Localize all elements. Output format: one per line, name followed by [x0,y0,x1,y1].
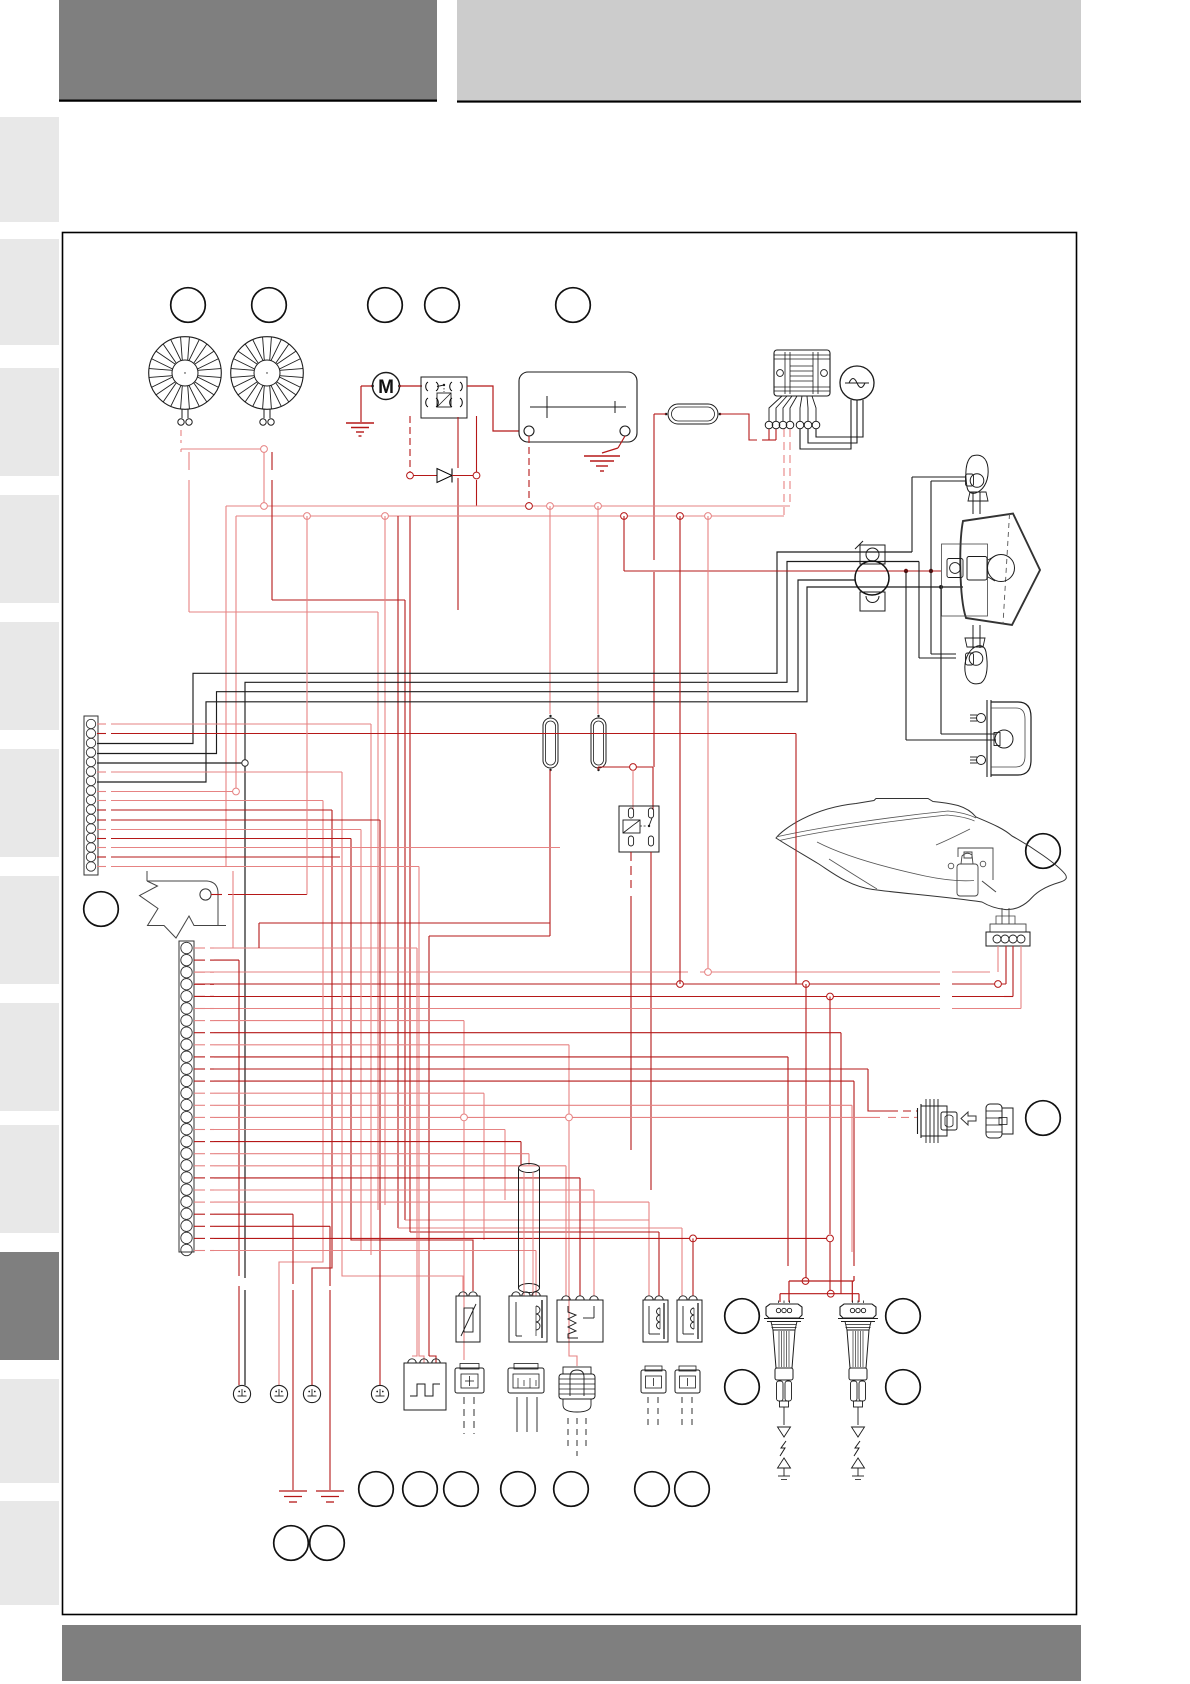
bullet connector 1 [233,1385,250,1402]
bullet connector 3 [303,1385,320,1402]
ECU connector A [84,716,98,875]
wire tank light line2 [195,946,1021,1009]
tail light [987,700,1031,777]
wire coil feed 806 [802,984,809,1284]
fuse F2 [543,715,558,771]
wire coil feed 830 [827,997,835,1298]
horn bottom bracket [860,592,885,611]
starter motor M [371,373,401,400]
bus B key power [236,513,784,520]
cooling fan 2 [231,337,304,425]
wire vertical 906 tail [906,571,996,740]
wire regulator to bus dashed [784,429,790,516]
wire motor to relay [399,385,422,387]
wire ECU-A pin15 [97,856,340,858]
ignition key switch [140,871,227,938]
wire ECU-B pin11 [194,1069,890,1111]
wire ECU-A pin6 [97,772,463,1291]
bus A +12V [226,503,790,510]
headlight stem lower [973,625,980,648]
wire ECU-B pin2 [194,960,239,1276]
wire ECU-B pin15 [194,1116,880,1118]
voltage regulator [774,350,830,396]
page footer bar [62,1625,1081,1681]
bullet connector 2 [270,1385,287,1402]
wire ECU-A pin12 [97,830,361,1251]
headlight stem upper [973,492,980,514]
turn signal flasher [619,806,659,852]
fuse F3 [591,715,606,771]
fuel pump [948,848,996,896]
wire fuse to regulator [720,414,776,440]
ground G3 [279,1491,307,1502]
wire ECU-B pin25 [194,1237,827,1239]
wire diag light nodes [461,1114,573,1121]
wire busB left drop [235,516,237,788]
tail light bolt 2 [970,756,986,765]
wire ECU-A pin10 [97,810,332,1385]
wire aux y923 [233,871,550,948]
wire busB drop 385 [384,516,386,1205]
wire busB drop 680 [679,516,681,984]
wire battery + down dashed [528,436,530,503]
wire ECU-B pin3 [194,971,214,973]
fuel injector 2 [677,1296,702,1342]
wire relay to battery + [467,386,519,431]
wire fan1 right [189,452,378,612]
wire indicator right feeds [912,477,966,481]
wire ECU-B pin24 [194,1226,330,1280]
wire black net1 [97,552,912,744]
diagnostic connector [918,1099,958,1143]
wire ECU-B pin19 [194,1166,566,1296]
wire vertical 912 [911,477,913,552]
wire battery - to ground [602,436,625,453]
fuel pump plug [559,1367,595,1412]
regulator terminal row [765,421,820,429]
wire bundle drop 405 [405,600,649,1296]
ground G2 battery [584,456,620,471]
wire diode down [476,480,478,506]
wire ECU-B pin13 [194,1093,484,1240]
alternator [840,366,874,400]
wire coil bus1 [789,1276,854,1302]
wire ECU-A pin9 [97,801,323,1386]
joint sleeve [519,1164,540,1297]
wire diag dark dash [890,1110,918,1112]
front turn signal left [965,638,987,684]
wire ECU-B pin25 nodes [690,1235,697,1296]
wire ECU-A pin8 node [233,788,240,795]
injector plug 2 [675,1366,700,1393]
ground G4 [316,1491,344,1502]
throttle position sensor [404,1359,446,1410]
wire ECU-B pin4 [194,983,214,985]
battery [519,372,637,442]
wire fan2 left [263,452,265,503]
wire busA left drop [225,506,227,866]
fuel tank [776,799,1066,910]
bullet connector 4 [371,1385,388,1402]
wire drop 398 [398,516,682,1296]
diagram frame [63,233,1077,1615]
wire ECU-B pin18 [194,1154,529,1165]
horn relay top [855,541,885,564]
ground G1 [346,423,374,436]
sensor plug B wires [517,1397,537,1432]
wire drop 410 low [410,516,659,1296]
callout number circles [84,288,1061,1561]
wire black net2 [97,580,855,754]
wire conn1 red [238,1286,240,1385]
wire fan1 left [181,430,267,452]
starter relay [421,377,467,418]
wire busA to fuse2 [549,506,551,714]
wire ECU-B pin10 [194,1057,788,1266]
wire ECU-B pin20 [194,1178,580,1296]
page header block left [59,0,437,101]
ignition coil 2 [838,1301,878,1480]
wire ECU-B pin8 [194,1033,841,1294]
wire fuse2 down [429,770,550,1363]
sensor plug B [508,1364,544,1394]
fuel injector 1 [643,1296,668,1342]
wire fuse3 to flasher [598,764,653,810]
wire black conn1 drop [244,766,246,1385]
wire tank light line [195,946,998,972]
wire ECU-B pin23 [194,1214,293,1278]
wire tank dark line1 [195,946,1006,987]
wire black net3 [97,587,963,782]
alternator wires [800,400,863,449]
wire ECU-B pin26 [194,1251,536,1297]
diagnostic arrow [961,1112,976,1125]
wire ECU-A pin16 [97,867,424,1364]
regulator leads [769,396,816,421]
pickup sensor [509,1292,547,1342]
wire ECU-B pin14 [194,1105,852,1252]
wire busA to fuse3 [597,506,599,714]
headlight bulb [967,555,1015,582]
front turn signal right [966,455,989,501]
side index tabs [0,117,59,1605]
wire relay aux dashed [410,416,477,610]
injector plug 2 wires [682,1397,692,1430]
sensor plug A wires [464,1397,474,1434]
wire vertical 919 [919,562,956,659]
wire ECU-B pin9 [194,1045,577,1366]
diode D1 [407,469,480,483]
wire ECU-A pin8 [97,791,233,793]
tank connector [986,908,1030,946]
wire flasher down [631,852,651,1190]
page header block right [457,0,1081,102]
ECU connector B [179,941,194,1256]
cooling fan 1 [149,337,222,425]
wire vertical 941 tail [939,585,996,734]
wire motor to ground [361,386,372,422]
svg-text:M: M [378,377,394,398]
wire ECU-A pin13 [97,839,473,1292]
main fuse F1 [665,404,722,424]
position lamp [947,559,963,578]
wire ECU-B pin16 [194,1130,505,1201]
wire ECU-A pin2 [97,734,796,985]
sensor plug A [455,1364,484,1394]
ignition coil 1 [764,1301,804,1480]
fuel pump plug wires [568,1418,586,1456]
wire ECU-B pin12 [194,1081,854,1266]
resistor pack [557,1296,603,1342]
wire fan2 right [272,452,405,600]
wire ECU-A pin11 [97,820,380,1385]
wire ECU-B pin5 [194,995,214,997]
wire red headlight [624,516,941,573]
wire key switch [211,516,307,895]
coolant temp sensor [456,1292,480,1342]
wire ECU-A pin14 [97,847,560,849]
tail light bolt 1 [970,714,986,723]
wire conn4 feed [379,1384,381,1387]
wire diag light dash [888,1116,918,1118]
wire ECU-A pin1 [97,724,371,1255]
wire busB drop 708 [705,516,712,975]
wire ECU-B pin17 [194,1142,521,1165]
wire black net4 [97,562,919,767]
headlight inner housing [942,544,988,616]
wire coil bus2 [780,1294,859,1302]
wire ECU-B pin7 [194,1021,464,1360]
wire ECU-B pin6 [194,1008,214,1010]
wire ECU-B pin1 [194,948,417,1356]
wire tank dark line2 [195,946,1013,1000]
wire vertical 931 [931,481,956,654]
injector plug 1 wires [648,1397,658,1430]
wire ECU-B pin21 [194,1190,594,1296]
wire ECU-B pin22 [194,1202,649,1220]
diagnostic cap [986,1104,1013,1138]
wire fuse left feed [654,414,666,767]
wire bundle drop 378 [377,612,379,1210]
injector plug 1 [641,1366,666,1393]
headlight shell [960,514,1040,626]
horn [855,561,889,595]
wire gnd drops [293,1278,330,1490]
